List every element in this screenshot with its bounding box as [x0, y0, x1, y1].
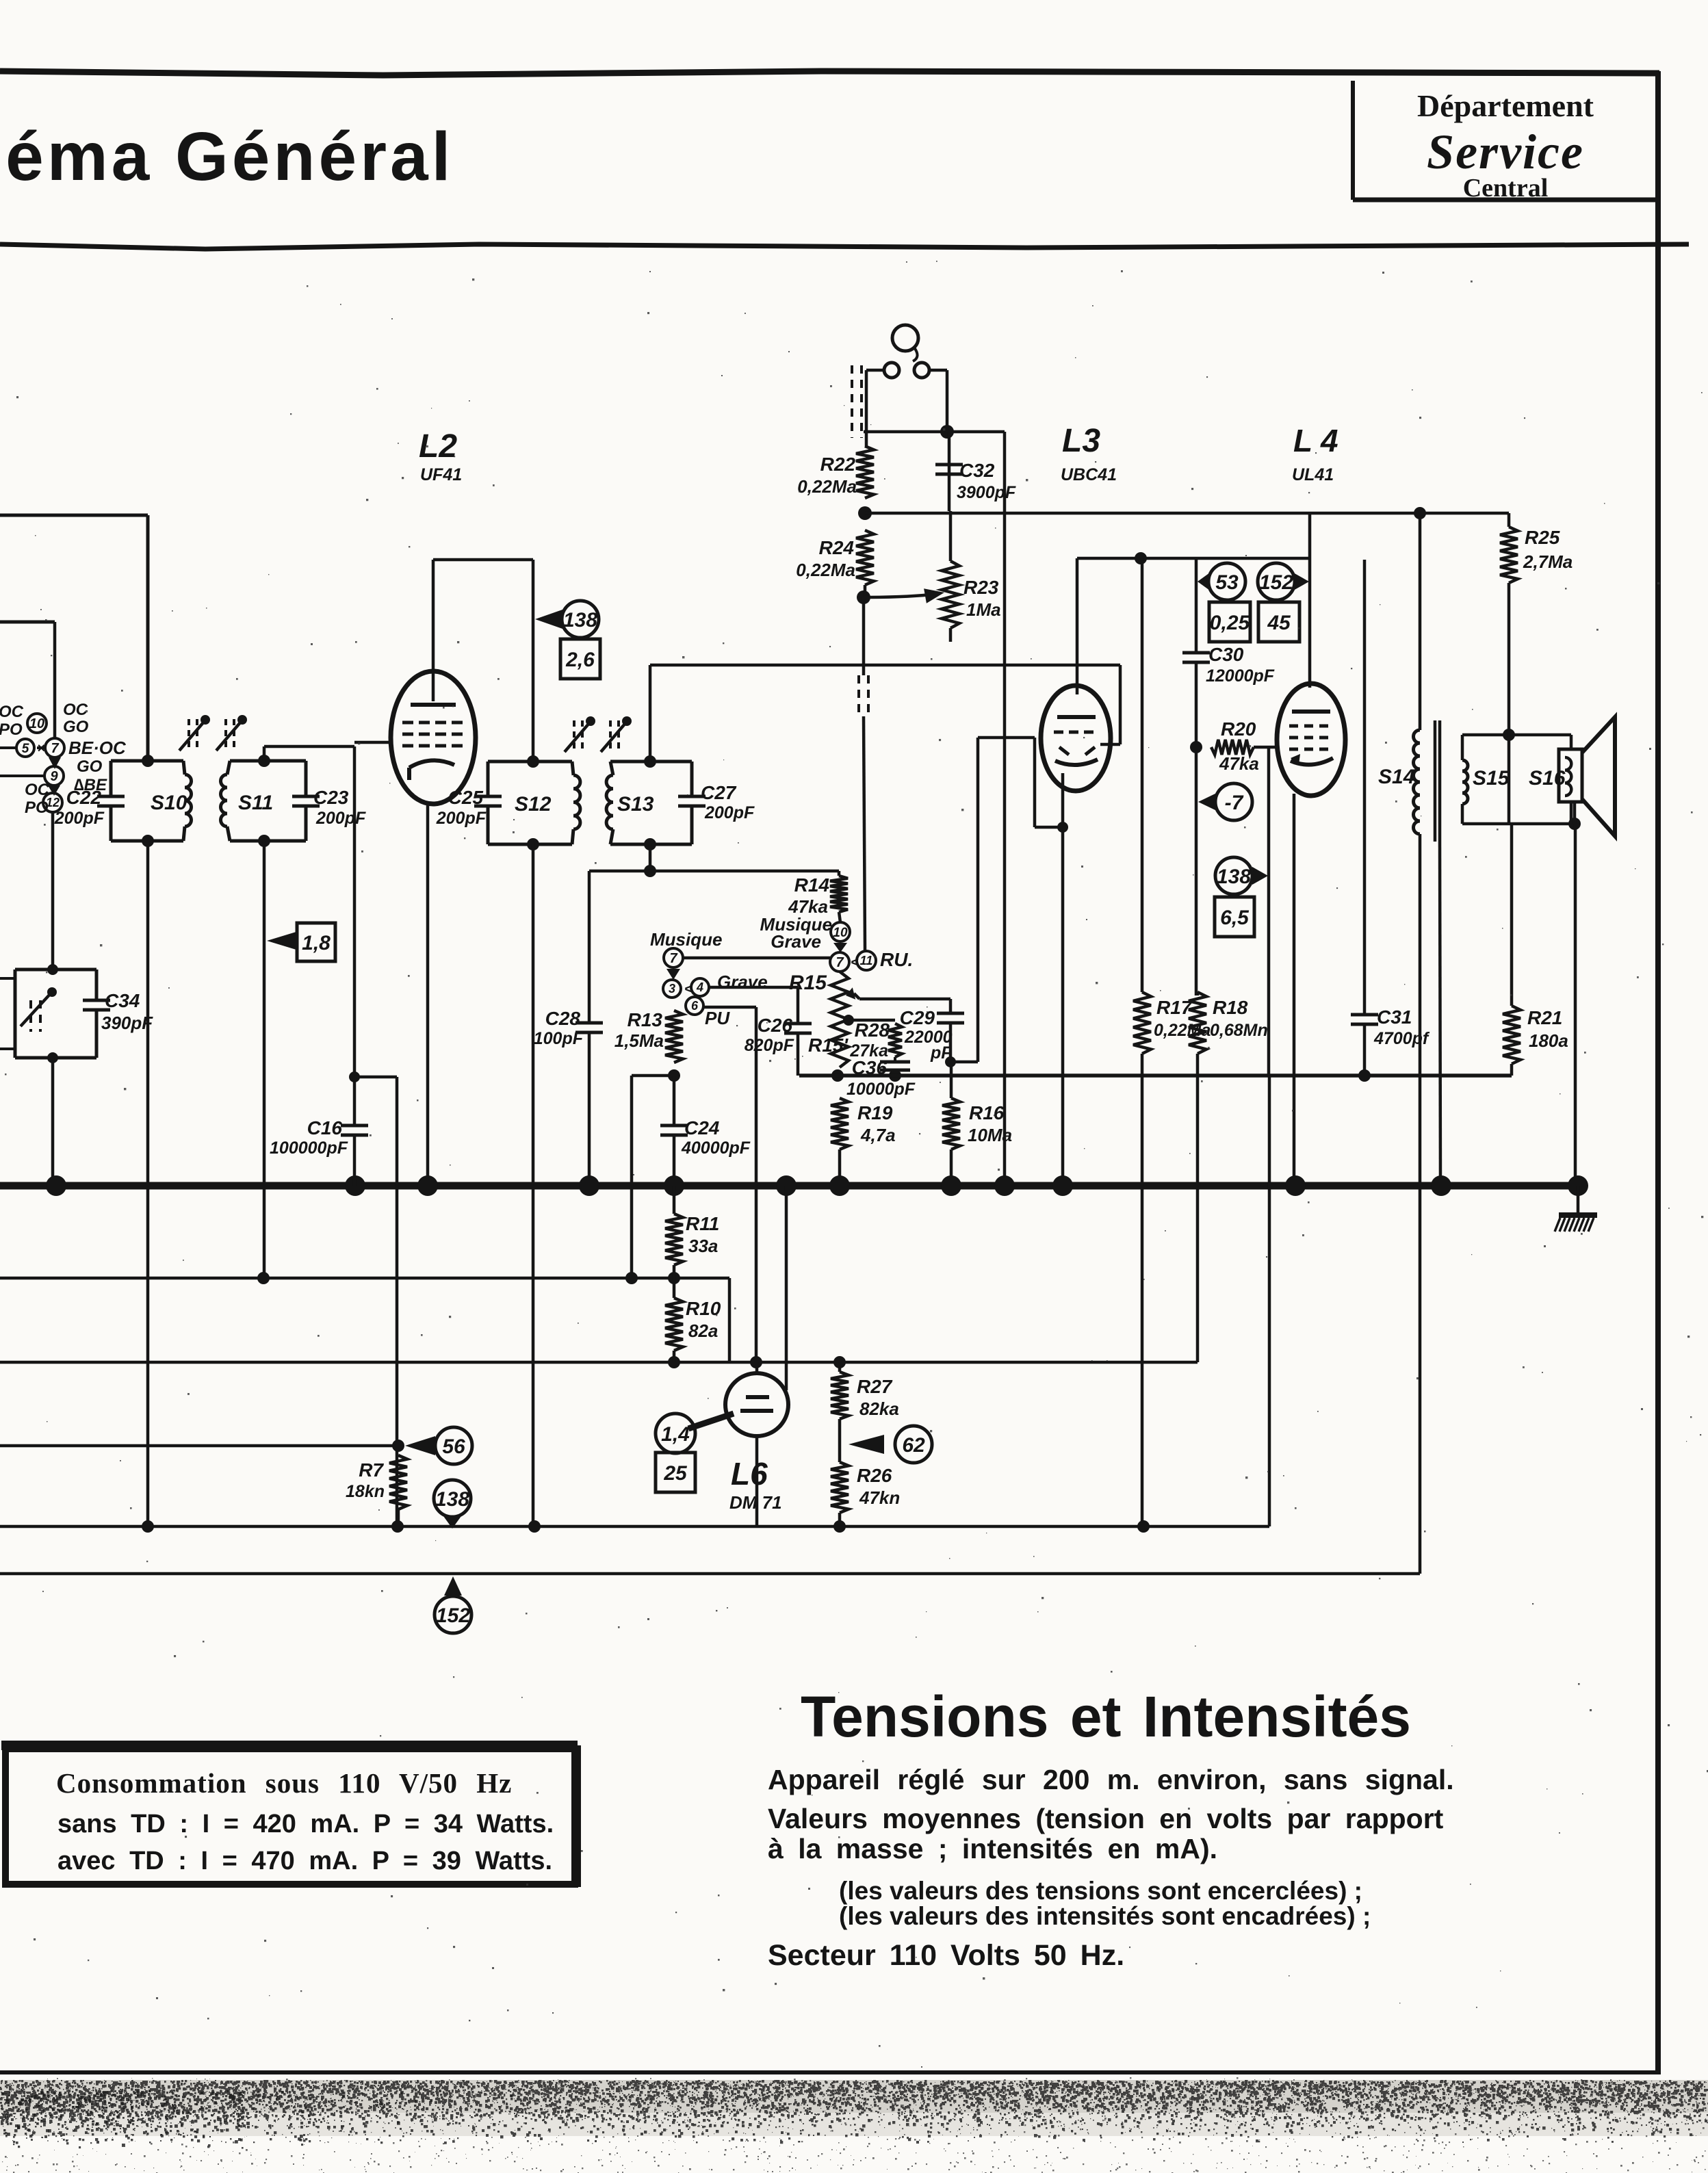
svg-text:7: 7	[669, 951, 677, 966]
svg-text:OC: OC	[0, 703, 24, 721]
svg-text:200pF: 200pF	[436, 809, 487, 828]
svg-text:R19: R19	[857, 1102, 893, 1123]
svg-text:25: 25	[663, 1462, 688, 1485]
svg-text:138: 138	[435, 1488, 469, 1511]
svg-text:R26: R26	[857, 1465, 892, 1486]
svg-text:53: 53	[1215, 571, 1239, 594]
svg-text:C28: C28	[545, 1008, 581, 1029]
svg-text:100000pF: 100000pF	[270, 1138, 348, 1158]
svg-text:1Ma: 1Ma	[966, 599, 1001, 620]
svg-text:82a: 82a	[688, 1320, 718, 1341]
svg-text:C22: C22	[66, 787, 102, 808]
svg-text:R23: R23	[963, 577, 999, 598]
svg-text:4: 4	[696, 980, 703, 994]
svg-text:0,22Ma: 0,22Ma	[797, 476, 857, 497]
svg-text:C34: C34	[105, 990, 140, 1011]
svg-text:Département: Département	[1417, 88, 1594, 123]
svg-text:C16: C16	[307, 1117, 343, 1138]
svg-text:390pF: 390pF	[101, 1013, 153, 1033]
svg-text:180a: 180a	[1529, 1030, 1568, 1051]
svg-text:10: 10	[833, 926, 848, 940]
svg-text:18kn: 18kn	[346, 1482, 385, 1501]
svg-text:S15: S15	[1473, 767, 1510, 790]
svg-text:Grave: Grave	[717, 972, 768, 992]
svg-text:Tensions et Intensités: Tensions et Intensités	[801, 1684, 1411, 1749]
svg-text:R14: R14	[794, 874, 830, 896]
svg-text:R15: R15	[789, 972, 827, 994]
svg-text:Service: Service	[1427, 125, 1584, 179]
svg-text:GO: GO	[63, 718, 89, 736]
svg-text:UL41: UL41	[1292, 465, 1334, 484]
svg-text:S13: S13	[617, 793, 654, 816]
svg-text:9: 9	[50, 769, 58, 784]
svg-text:Valeurs moyennes (tension en v: Valeurs moyennes (tension en volts par r…	[768, 1803, 1444, 1834]
svg-text:0,25: 0,25	[1210, 612, 1251, 634]
svg-text:héma Général: héma Général	[0, 118, 454, 195]
svg-text:R16: R16	[969, 1102, 1005, 1123]
svg-text:R15': R15'	[808, 1035, 849, 1056]
svg-text:1,8: 1,8	[302, 932, 331, 954]
svg-text:82ka: 82ka	[859, 1398, 899, 1419]
svg-text:2,6: 2,6	[565, 649, 595, 671]
svg-text:PO: PO	[0, 720, 23, 739]
svg-text:-7: -7	[1225, 792, 1244, 814]
svg-text:C31: C31	[1377, 1006, 1412, 1028]
svg-text:C29: C29	[900, 1007, 935, 1028]
svg-text:L6: L6	[731, 1456, 768, 1492]
svg-text:Musique: Musique	[650, 929, 722, 950]
svg-text:S12: S12	[515, 793, 552, 816]
svg-text:C30: C30	[1208, 644, 1244, 665]
svg-text:200pF: 200pF	[54, 809, 105, 828]
svg-text:OC: OC	[25, 781, 50, 799]
svg-text:62: 62	[902, 1434, 925, 1457]
svg-text:C23: C23	[313, 787, 349, 808]
svg-text:R22: R22	[820, 454, 856, 475]
svg-text:R21: R21	[1527, 1007, 1562, 1028]
svg-text:5: 5	[22, 742, 29, 756]
svg-text:Secteur 110 Volts 50 Hz.: Secteur 110 Volts 50 Hz.	[768, 1939, 1124, 1972]
svg-text:7: 7	[51, 741, 59, 756]
svg-text:S11: S11	[238, 792, 273, 814]
svg-text:10000pF: 10000pF	[846, 1080, 916, 1099]
svg-text:OC: OC	[63, 701, 88, 719]
svg-text:200pF: 200pF	[315, 809, 366, 828]
svg-text:S10: S10	[151, 792, 187, 814]
svg-text:47kn: 47kn	[859, 1487, 900, 1508]
svg-text:152: 152	[436, 1604, 470, 1627]
svg-text:45: 45	[1267, 612, 1291, 634]
svg-text:R17: R17	[1156, 997, 1193, 1018]
svg-text:R28: R28	[855, 1019, 890, 1041]
svg-text:RU.: RU.	[880, 949, 913, 970]
svg-text:R18: R18	[1213, 997, 1248, 1018]
svg-text:6: 6	[691, 999, 699, 1013]
svg-text:UF41: UF41	[420, 465, 462, 484]
svg-text:sans TD : I = 420 mA. P: sans TD : I = 420 mA. P = 34 Watts.	[57, 1810, 554, 1838]
svg-text:0,22Ma: 0,22Ma	[796, 560, 855, 580]
svg-text:C27: C27	[701, 782, 737, 803]
svg-text:PU: PU	[705, 1008, 730, 1028]
svg-text:138: 138	[1217, 866, 1251, 888]
svg-text:R25: R25	[1525, 527, 1560, 548]
svg-text:S14: S14	[1378, 766, 1415, 788]
svg-text:Grave: Grave	[771, 931, 821, 952]
svg-text:Central: Central	[1463, 174, 1549, 203]
svg-text:200pF: 200pF	[704, 803, 755, 822]
svg-text:1,4: 1,4	[661, 1423, 690, 1446]
svg-text:0,68Mn: 0,68Mn	[1210, 1021, 1268, 1040]
svg-text:1,5Ma: 1,5Ma	[614, 1030, 664, 1051]
svg-text:R20: R20	[1221, 718, 1256, 740]
svg-text:Consommation sous 110 V/50: Consommation sous 110 V/50 Hz	[56, 1767, 512, 1799]
svg-text:(les valeurs des intensités so: (les valeurs des intensités sont encadré…	[839, 1902, 1371, 1930]
svg-text:GO: GO	[77, 757, 103, 776]
svg-text:avec TD : I = 470 mA. P: avec TD : I = 470 mA. P = 39 Watts.	[57, 1847, 552, 1875]
svg-text:C32: C32	[959, 460, 995, 481]
svg-text:12000pF: 12000pF	[1206, 666, 1275, 686]
svg-text:56: 56	[442, 1435, 465, 1458]
svg-text:L2: L2	[419, 428, 457, 465]
svg-text:DM 71: DM 71	[729, 1492, 782, 1513]
svg-text:BE·OC: BE·OC	[68, 738, 127, 758]
svg-text:33a: 33a	[688, 1236, 718, 1256]
svg-text:C24: C24	[684, 1117, 720, 1138]
svg-text:R27: R27	[857, 1376, 893, 1397]
svg-text:10: 10	[29, 716, 44, 731]
svg-text:(les valeurs des tensions sont: (les valeurs des tensions sont encerclée…	[839, 1877, 1362, 1905]
svg-text:R7: R7	[359, 1459, 384, 1481]
svg-text:7: 7	[836, 955, 844, 970]
svg-text:R13: R13	[627, 1009, 663, 1030]
svg-text:UBC41: UBC41	[1061, 465, 1117, 484]
svg-text:6,5: 6,5	[1220, 907, 1250, 929]
svg-text:2,7Ma: 2,7Ma	[1523, 551, 1573, 572]
svg-text:100pF: 100pF	[534, 1029, 584, 1048]
svg-text:820pF: 820pF	[745, 1036, 794, 1055]
svg-text:×: ×	[37, 741, 45, 756]
svg-text:40000pF: 40000pF	[681, 1138, 751, 1158]
svg-text:C26: C26	[758, 1015, 793, 1036]
svg-text:Appareil réglé sur 200 m. envi: Appareil réglé sur 200 m. environ, sans …	[768, 1764, 1454, 1795]
svg-text:47ka: 47ka	[1219, 753, 1259, 774]
svg-text:3900pF: 3900pF	[957, 483, 1016, 502]
svg-text:152: 152	[1259, 571, 1293, 594]
svg-text:3: 3	[669, 982, 675, 996]
svg-text:R11: R11	[686, 1213, 719, 1234]
svg-text:4700pf: 4700pf	[1373, 1029, 1430, 1048]
svg-text:C25: C25	[448, 787, 484, 808]
svg-text:11: 11	[860, 954, 873, 967]
svg-text:L3: L3	[1062, 423, 1100, 459]
svg-text:R24: R24	[819, 537, 855, 558]
svg-text:4,7a: 4,7a	[860, 1125, 896, 1145]
svg-text:à la masse ; intensités en mA): à la masse ; intensités en mA).	[768, 1833, 1217, 1864]
svg-text:PO: PO	[25, 798, 49, 817]
svg-text:138: 138	[563, 609, 597, 632]
